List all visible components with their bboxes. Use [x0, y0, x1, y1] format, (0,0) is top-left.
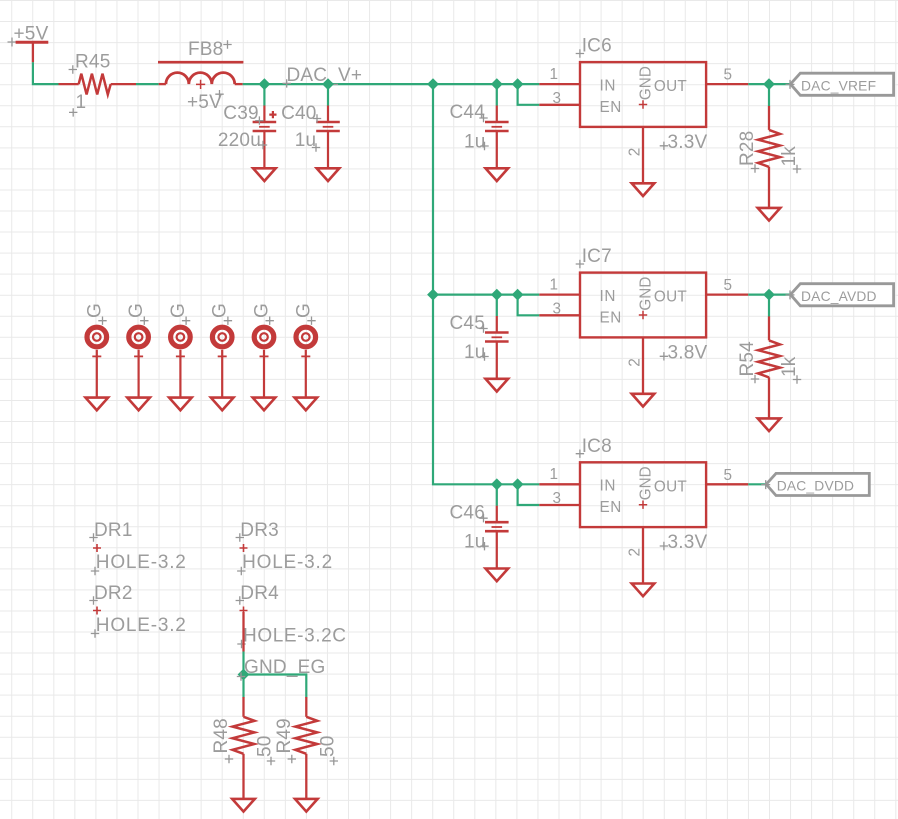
- svg-text:3.8V: 3.8V: [668, 343, 708, 364]
- svg-text:C40: C40: [281, 103, 316, 124]
- svg-text:EN: EN: [600, 499, 622, 516]
- svg-text:C39: C39: [223, 103, 258, 124]
- svg-text:220u: 220u: [218, 130, 261, 151]
- svg-text:IC7: IC7: [582, 246, 612, 267]
- svg-text:GND: GND: [637, 466, 654, 500]
- svg-text:G: G: [293, 303, 314, 318]
- svg-text:+5V: +5V: [187, 92, 222, 113]
- svg-text:HOLE-3.2: HOLE-3.2: [242, 552, 333, 573]
- svg-text:DR1: DR1: [94, 520, 133, 541]
- svg-text:5: 5: [724, 277, 733, 294]
- svg-text:1k: 1k: [779, 146, 800, 167]
- svg-text:50: 50: [255, 735, 276, 757]
- svg-text:G: G: [126, 303, 147, 318]
- svg-text:DR2: DR2: [94, 583, 133, 604]
- svg-text:R28: R28: [737, 131, 758, 166]
- svg-text:EN: EN: [600, 99, 622, 116]
- svg-text:R49: R49: [274, 718, 295, 753]
- svg-text:R45: R45: [75, 52, 110, 73]
- svg-text:C44: C44: [450, 102, 486, 123]
- svg-text:2: 2: [627, 358, 644, 367]
- svg-text:3: 3: [553, 90, 562, 107]
- svg-text:IN: IN: [600, 478, 617, 495]
- svg-text:1u: 1u: [464, 342, 486, 363]
- svg-text:IC6: IC6: [582, 36, 612, 57]
- svg-text:DAC_VREF: DAC_VREF: [801, 79, 876, 94]
- svg-text:HOLE-3.2C: HOLE-3.2C: [243, 626, 347, 647]
- svg-text:2: 2: [627, 548, 644, 557]
- svg-text:1: 1: [76, 92, 87, 113]
- svg-text:C46: C46: [450, 503, 485, 524]
- svg-text:5: 5: [724, 467, 733, 484]
- svg-text:GND: GND: [637, 277, 654, 311]
- svg-text:1k: 1k: [779, 356, 800, 377]
- svg-text:GND: GND: [637, 66, 654, 100]
- svg-text:IN: IN: [600, 77, 617, 94]
- svg-text:IC8: IC8: [582, 436, 612, 457]
- svg-text:1: 1: [550, 466, 559, 483]
- svg-text:3.3V: 3.3V: [668, 132, 708, 153]
- svg-text:G: G: [210, 303, 231, 318]
- svg-text:R54: R54: [737, 341, 758, 377]
- svg-text:G: G: [84, 303, 105, 318]
- svg-text:HOLE-3.2: HOLE-3.2: [96, 615, 187, 636]
- svg-text:3: 3: [553, 301, 562, 318]
- svg-text:3.3V: 3.3V: [668, 532, 708, 553]
- svg-text:R48: R48: [211, 718, 232, 753]
- svg-text:3: 3: [553, 490, 562, 507]
- svg-text:50: 50: [317, 735, 338, 757]
- svg-text:1: 1: [550, 66, 559, 83]
- svg-text:OUT: OUT: [654, 478, 687, 495]
- svg-text:1u: 1u: [464, 532, 486, 553]
- svg-text:C45: C45: [450, 313, 485, 334]
- svg-text:G: G: [252, 303, 273, 318]
- svg-text:DAC_AVDD: DAC_AVDD: [801, 289, 877, 304]
- svg-text:G: G: [168, 303, 189, 318]
- svg-text:GND_EG: GND_EG: [244, 657, 325, 678]
- svg-text:DR3: DR3: [240, 520, 279, 541]
- svg-text:FB8: FB8: [188, 39, 223, 60]
- svg-text:1: 1: [550, 277, 559, 294]
- svg-text:2: 2: [627, 148, 644, 157]
- svg-text:IN: IN: [600, 288, 617, 305]
- svg-text:OUT: OUT: [654, 289, 687, 306]
- svg-text:1u: 1u: [464, 132, 486, 153]
- svg-text:EN: EN: [600, 309, 622, 326]
- svg-text:DAC_DVDD: DAC_DVDD: [777, 479, 855, 494]
- svg-text:HOLE-3.2: HOLE-3.2: [96, 552, 187, 573]
- svg-text:DR4: DR4: [240, 583, 279, 604]
- svg-text:5: 5: [724, 67, 733, 84]
- svg-text:OUT: OUT: [654, 78, 687, 95]
